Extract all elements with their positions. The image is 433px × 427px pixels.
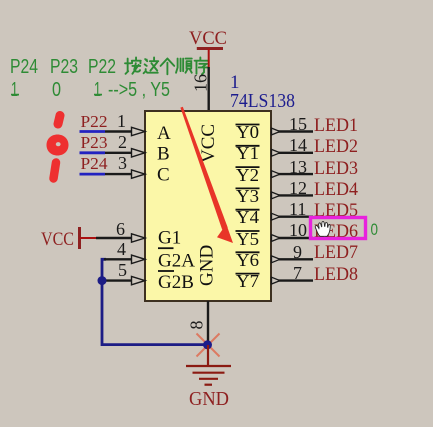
svg-text:A: A bbox=[157, 123, 171, 144]
wire P23 to pin 2 bbox=[80, 151, 106, 154]
red marker annotation 1 (bottom) bbox=[54, 163, 57, 179]
svg-text:P22: P22 bbox=[81, 112, 108, 131]
junction dot at ground node bbox=[203, 340, 212, 349]
svg-text:GND: GND bbox=[189, 388, 229, 410]
mouse hand cursor bbox=[315, 221, 330, 236]
svg-text:12: 12 bbox=[289, 178, 307, 198]
svg-text:74LS138: 74LS138 bbox=[230, 90, 295, 112]
svg-text:14: 14 bbox=[289, 135, 307, 155]
wire VCC to pin 16 bbox=[207, 67, 209, 112]
pin 15 arrowhead bbox=[272, 128, 281, 135]
svg-text:1: 1 bbox=[11, 79, 18, 101]
svg-text:Y5: Y5 bbox=[236, 229, 259, 249]
svg-text:G2B: G2B bbox=[158, 272, 194, 293]
svg-text:P22: P22 bbox=[88, 56, 116, 78]
svg-text:1: 1 bbox=[117, 111, 126, 131]
svg-text:G2A: G2A bbox=[158, 251, 195, 272]
svg-text:-->5 , Y5: -->5 , Y5 bbox=[108, 79, 170, 101]
svg-text:0: 0 bbox=[52, 79, 61, 101]
svg-text:1: 1 bbox=[94, 79, 101, 101]
wire pin 12 bbox=[271, 194, 313, 196]
ground symbol bbox=[186, 366, 231, 385]
svg-text:P23: P23 bbox=[50, 56, 78, 78]
wire P24 to pin 3 bbox=[80, 173, 106, 176]
pin 10 arrowhead bbox=[272, 235, 281, 242]
svg-text:15: 15 bbox=[289, 114, 307, 134]
pin 6 arrowhead bbox=[132, 234, 146, 242]
svg-text:LED3: LED3 bbox=[314, 158, 358, 179]
pin label G2A with overline bbox=[158, 248, 195, 271]
pin 11 arrowhead bbox=[272, 213, 281, 220]
pin 4 arrowhead bbox=[132, 255, 146, 263]
selection cross (red X) bbox=[197, 334, 220, 357]
pin 1 arrowhead bbox=[132, 127, 146, 135]
svg-text:P24: P24 bbox=[81, 154, 108, 173]
svg-text:3: 3 bbox=[118, 153, 127, 173]
wire pin 15 bbox=[271, 130, 313, 132]
red marker annotation 0 bbox=[47, 135, 69, 156]
wire pin 8 to ground junction bbox=[207, 301, 209, 341]
svg-text:8: 8 bbox=[187, 321, 207, 330]
svg-text:B: B bbox=[157, 144, 170, 165]
wire junction to ground bbox=[207, 345, 209, 366]
pin labels Y0-Y7 with overlines bbox=[236, 122, 260, 291]
wire P22 to pin 1 bbox=[80, 130, 106, 133]
wire blue down-left to ground junction bbox=[102, 281, 205, 345]
junction dot (blue) bbox=[98, 276, 107, 285]
svg-text:11: 11 bbox=[289, 199, 306, 219]
pin 2 arrowhead bbox=[132, 149, 146, 157]
wire pin 13 bbox=[271, 173, 313, 175]
svg-text:G1: G1 bbox=[158, 228, 181, 249]
svg-text:6: 6 bbox=[116, 219, 125, 239]
svg-text:LED1: LED1 bbox=[314, 115, 358, 136]
pin 13 arrowhead bbox=[272, 171, 281, 178]
wire VCC to pin 6 bbox=[96, 237, 133, 239]
pin label G2B with overline bbox=[158, 271, 194, 293]
wire junction to pin 5 bbox=[102, 279, 133, 281]
svg-text:C: C bbox=[157, 165, 170, 186]
svg-text:LED2: LED2 bbox=[314, 136, 358, 157]
annotation green text line 2 bbox=[11, 79, 170, 101]
selection box around LED6 bbox=[311, 218, 366, 239]
svg-text:0: 0 bbox=[371, 220, 379, 239]
red marker annotation 1 (top) bbox=[58, 116, 60, 125]
svg-text:9: 9 bbox=[293, 242, 302, 262]
pin 14 arrowhead bbox=[272, 149, 281, 156]
annotation chinese text 按这个顺序 (drawn strokes) bbox=[125, 58, 208, 75]
wire blue riser to pin 4 bbox=[102, 259, 106, 280]
pin 9 arrowhead bbox=[272, 256, 281, 263]
annotation green text line 1 bbox=[10, 56, 116, 78]
svg-text:LED4: LED4 bbox=[314, 179, 358, 200]
pin 5 arrowhead bbox=[132, 276, 146, 284]
pin 3 arrowhead bbox=[132, 170, 146, 178]
svg-text:VCC: VCC bbox=[41, 229, 74, 250]
svg-text:10: 10 bbox=[289, 220, 307, 240]
svg-text:LED8: LED8 bbox=[314, 264, 358, 285]
wire pin 9 bbox=[271, 258, 313, 260]
pin 12 arrowhead bbox=[272, 192, 281, 199]
power symbol VCC (top) bbox=[189, 28, 227, 67]
power symbol VCC (left) bbox=[41, 227, 97, 250]
pin 7 arrowhead bbox=[272, 277, 281, 284]
wire pin 7 bbox=[271, 279, 313, 281]
svg-text:VCC: VCC bbox=[189, 28, 227, 49]
svg-text:4: 4 bbox=[117, 239, 126, 259]
svg-text:5: 5 bbox=[118, 260, 127, 280]
wire pin 11 bbox=[271, 215, 313, 217]
svg-text:P24: P24 bbox=[10, 56, 38, 78]
svg-text:P23: P23 bbox=[81, 133, 108, 152]
svg-text:7: 7 bbox=[293, 263, 302, 283]
red annotation arrow to Y5 bbox=[180, 107, 233, 243]
svg-text:GND: GND bbox=[197, 245, 218, 286]
wire pin 10 bbox=[271, 237, 313, 239]
svg-text:16: 16 bbox=[190, 74, 210, 92]
wire pin 14 bbox=[271, 152, 313, 154]
svg-text:2: 2 bbox=[118, 132, 127, 152]
IC body U1 74LS138 bbox=[145, 111, 271, 301]
svg-text:13: 13 bbox=[289, 157, 307, 177]
svg-text:LED7: LED7 bbox=[314, 242, 358, 263]
